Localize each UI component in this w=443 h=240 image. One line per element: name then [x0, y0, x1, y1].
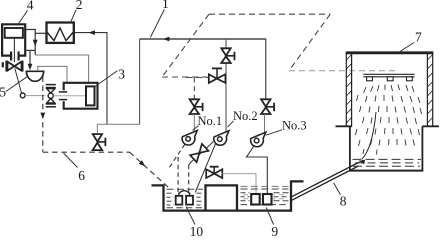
arrow left on line 1: [163, 37, 169, 42]
leader 10: [186, 207, 195, 225]
pump No.3: [251, 132, 266, 147]
leader for label 6: [64, 153, 78, 168]
diagonal valve: [190, 144, 208, 162]
leader No.3: [266, 130, 282, 135]
valve V6 (on return line 6): [93, 134, 102, 150]
leader for label 2: [71, 10, 77, 22]
svg-text:No.1: No.1: [198, 114, 223, 128]
dashed air region left slant: [162, 14, 209, 77]
valve V5 flange bars: [5, 61, 7, 72]
tank 9 water dashes: [241, 186, 289, 204]
wire valve No.3 to pump: [264, 114, 266, 133]
arrow down on riser: [33, 40, 38, 46]
tank profile (tanks 10 and 9): [152, 181, 304, 210]
tower left wall: [346, 53, 351, 127]
arrow on line 6 diagonal: [139, 160, 146, 166]
dashed vertical into tank10 right electrode: [188, 165, 190, 192]
tank 10 electrodes: [176, 196, 183, 205]
dashed air region bottom-left edge: [162, 76, 207, 78]
box 3 (tank with element): [64, 83, 98, 109]
main line 1: [140, 38, 266, 40]
dashed stub to valve V7: [186, 77, 209, 79]
dashed vertical into tank10 left electrode: [177, 157, 179, 192]
basin bottom: [349, 170, 423, 172]
svg-text:No.3: No.3: [282, 118, 307, 132]
valve on column (above): [221, 48, 230, 63]
pipe 8 (double line): [291, 162, 360, 197]
valve above pump No.3: [265, 39, 267, 99]
dashed branch down to valve No.1: [193, 78, 195, 99]
spray droplets: [356, 85, 422, 155]
wire from dome top right going right: [38, 66, 67, 82]
basin water dashes: [353, 159, 422, 166]
wire drop into dome 5: [29, 50, 31, 68]
wire from riser down right to box3 small rect: [35, 55, 88, 83]
wire valve No.1 to pump: [193, 114, 195, 131]
steep line pump2 suction: [195, 144, 215, 193]
electrode stubs and arc: [178, 193, 180, 196]
gray pipe V8 to tank 9 left electrode: [222, 174, 256, 194]
diagonal line pump2 to diagonal valve: [191, 142, 214, 163]
dashed diagonal of line 6 into tank 10: [130, 152, 171, 189]
box 4 (instrument tank): [2, 24, 25, 55]
pump No.1: [182, 131, 197, 146]
zigzag inside box 2: [47, 28, 74, 41]
arrow into dome: [28, 64, 33, 70]
svg-text:3: 3: [118, 67, 125, 82]
valve V5 below box 4 (filled bowtie with flanges): [8, 62, 22, 71]
box 3 left plates: [59, 91, 67, 93]
dashed suction of pump No.1: [169, 144, 185, 168]
leader for label 5: [6, 77, 27, 92]
element rect inside box 3: [86, 86, 95, 105]
wire riser to box2 left: [35, 32, 46, 34]
pipe from box4 inner rect down to valve: [13, 38, 15, 62]
basin walls: [349, 126, 351, 170]
link valve V5 to circle node: [15, 68, 22, 93]
dashed air region right slant: [289, 14, 330, 70]
leader 9: [266, 208, 273, 225]
wire from box2 right with arrow to down-riser: [74, 33, 107, 125]
svg-text:6: 6: [78, 168, 85, 183]
leader 7: [399, 43, 414, 53]
dashed gray feed to tower sprayer: [289, 70, 397, 72]
svg-text:1: 1: [162, 0, 169, 11]
svg-text:9: 9: [271, 224, 278, 236]
svg-text:2: 2: [76, 0, 83, 12]
leader for label 4: [19, 11, 28, 24]
box 4 inner rect: [5, 28, 23, 38]
wire box4 bottom-right to riser: [25, 49, 35, 51]
tower top cap: [346, 51, 434, 54]
leader for label 3: [95, 71, 118, 87]
node circle: [20, 93, 25, 98]
curved arrow in basin: [362, 112, 376, 159]
line 1 left drop: [139, 39, 141, 124]
leader 8: [334, 183, 341, 195]
arrow down on dashed drop: [40, 113, 45, 119]
svg-text:7: 7: [415, 29, 422, 44]
thin wire through box 3: [53, 95, 86, 97]
leader No.1: [193, 126, 199, 131]
heat exchanger box 2: [47, 23, 74, 43]
box 4 bottom thick bars: [10, 52, 12, 61]
leader No.2: [228, 121, 234, 127]
svg-text:5: 5: [0, 84, 6, 99]
valve V5 outer left flange tick: [2, 62, 4, 67]
wall hatching left: [346, 55, 351, 124]
svg-text:No.2: No.2: [233, 109, 258, 123]
sprayer bar: [363, 73, 414, 75]
reducing valve (bowtie with circle and double flange bars): [46, 85, 56, 107]
tower right wall: [427, 53, 432, 127]
sprayer nozzles: [367, 77, 373, 81]
bottom connector to valve 6: [97, 124, 139, 134]
svg-text:8: 8: [340, 193, 347, 208]
tank 9 electrodes: [251, 194, 260, 205]
wall hatching right: [427, 55, 432, 124]
dashed air region top edge: [209, 13, 330, 15]
svg-text:10: 10: [190, 224, 204, 236]
leader for label 1: [150, 10, 164, 38]
central column x=226: [225, 39, 227, 132]
tank 10 water dashes: [167, 189, 204, 208]
gray water dashes tank 9: [243, 195, 288, 199]
arrow left on box2 return: [89, 30, 95, 35]
horizontal valve V7 with stem (junction to dashed region): [209, 74, 226, 83]
valve above pump No.1: [190, 99, 199, 114]
dashed drop line from dome: [42, 77, 44, 152]
dome sensor 5: [26, 71, 43, 81]
horizontal valve V8 with stem above tank 9: [206, 169, 222, 178]
tower ledges: [336, 125, 352, 127]
wire box4 to vertical riser: [26, 30, 35, 56]
pump No.2: [214, 131, 229, 146]
dashed return line 6: [43, 151, 130, 153]
wire from circle to reducing valve: [25, 95, 45, 97]
pump No.3 suction piping: [247, 146, 268, 194]
